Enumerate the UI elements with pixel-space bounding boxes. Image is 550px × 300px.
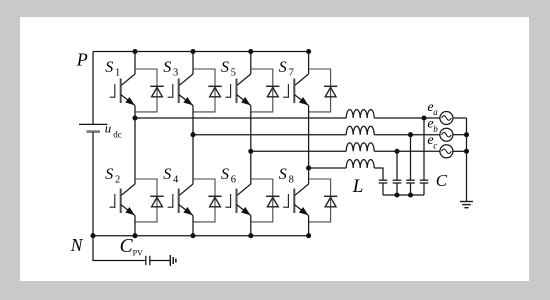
svg-text:u: u bbox=[105, 121, 112, 136]
wire: leg 2 midpoint vertical bbox=[192, 106, 194, 185]
antiparallel diode of S7 bbox=[309, 69, 338, 112]
svg-text:8: 8 bbox=[289, 175, 294, 186]
transistor S8 (IGBT) bbox=[283, 184, 308, 216]
transistor S5 (IGBT) bbox=[225, 74, 250, 106]
wire: phase line c from leg 3 to inductor bbox=[251, 150, 346, 152]
svg-text:6: 6 bbox=[231, 175, 236, 186]
wire: phase line b from leg 2 to inductor bbox=[193, 134, 346, 136]
ground (chassis, horizontal) bbox=[170, 255, 176, 266]
svg-text:a: a bbox=[433, 107, 438, 117]
inductor L (phase c) bbox=[346, 143, 374, 151]
wire: grid neutral bus (right vertical) bbox=[466, 118, 468, 202]
node: grid bus junction b bbox=[464, 132, 469, 137]
transistor S6 (IGBT) bbox=[225, 184, 250, 216]
transistor S4 (IGBT) bbox=[168, 184, 193, 216]
svg-text:S: S bbox=[279, 59, 287, 76]
transistor S3 (IGBT) bbox=[168, 74, 193, 106]
capacitor Cn (filter C) bbox=[379, 180, 388, 195]
wire: source e_b to grid bus bbox=[453, 134, 467, 136]
node: midpoint of leg 1 bbox=[132, 115, 137, 120]
svg-text:3: 3 bbox=[173, 68, 178, 79]
antiparallel diode of S8 bbox=[309, 179, 338, 222]
wire: leg 3 midpoint vertical bbox=[250, 106, 252, 185]
node: grid bus junction c bbox=[464, 149, 469, 154]
node: top rail junction leg 2 bbox=[190, 49, 195, 54]
svg-text:dc: dc bbox=[113, 130, 122, 140]
wire: phase line c from inductor to source e_c bbox=[374, 150, 440, 152]
node: top rail junction leg 1 bbox=[132, 49, 137, 54]
svg-text:S: S bbox=[163, 59, 171, 76]
wire: leg 2 emitter drop to N rail bbox=[192, 216, 194, 236]
svg-text:7: 7 bbox=[289, 68, 294, 79]
wire: phase line b from inductor to source e_b bbox=[374, 134, 440, 136]
wire: source e_c to grid bus bbox=[453, 150, 467, 152]
antiparallel diode of S5 bbox=[251, 69, 280, 112]
svg-text:S: S bbox=[221, 166, 229, 183]
node: bottom rail junction leg 3 bbox=[248, 233, 253, 238]
wire: leg 4 emitter drop to N rail bbox=[308, 216, 310, 236]
capacitor Cc (filter C) bbox=[393, 151, 402, 195]
inductor L (phase b) bbox=[346, 126, 374, 134]
wire: leg 4 midpoint vertical bbox=[308, 106, 310, 185]
svg-text:1: 1 bbox=[115, 68, 120, 79]
wire: neutral line elbow to capacitor bank bbox=[374, 168, 383, 180]
capacitor Cb (filter C) bbox=[406, 135, 415, 195]
node: midpoint of leg 3 bbox=[248, 149, 253, 154]
svg-text:2: 2 bbox=[115, 175, 120, 186]
wire: positive rail P (top bus) bbox=[93, 51, 311, 53]
node: bottom rail junction leg 4 bbox=[306, 233, 311, 238]
node: capacitor tap on phase line bbox=[394, 149, 399, 154]
node: bottom rail junction leg 1 bbox=[132, 233, 137, 238]
AC source e_b bbox=[440, 128, 453, 141]
antiparallel diode of S1 bbox=[135, 69, 164, 112]
svg-text:PV: PV bbox=[133, 249, 143, 258]
capacitor Ca (filter C) bbox=[420, 118, 429, 195]
wire: leg 3 collector drop from P rail bbox=[250, 52, 252, 75]
wire: leg 1 emitter drop to N rail bbox=[134, 216, 136, 236]
svg-text:C: C bbox=[436, 171, 448, 190]
svg-text:b: b bbox=[433, 124, 438, 134]
wire: C_PV to chassis ground bbox=[150, 260, 171, 262]
svg-text:5: 5 bbox=[231, 68, 236, 79]
svg-text:S: S bbox=[105, 59, 113, 76]
battery source u_dc bbox=[79, 124, 108, 131]
antiparallel diode of S4 bbox=[193, 179, 222, 222]
ground (earth) symbol bbox=[460, 202, 473, 208]
AC source e_c bbox=[440, 145, 453, 158]
node: capacitor tap on phase line bbox=[408, 132, 413, 137]
node: cap bus junction 2 bbox=[408, 192, 413, 197]
wire: source e_a to grid bus bbox=[453, 117, 467, 119]
wire: negative rail N (bottom bus) bbox=[93, 235, 311, 237]
wire: left DC rail upper segment bbox=[92, 52, 94, 125]
wire: branch to parasitic capacitor C_PV bbox=[93, 236, 146, 261]
inductor L (phase n) bbox=[346, 160, 374, 168]
wire: leg 1 midpoint vertical bbox=[134, 106, 136, 185]
transistor S2 (IGBT) bbox=[110, 184, 135, 216]
svg-text:N: N bbox=[70, 235, 84, 255]
node: capacitor tap on phase line bbox=[421, 115, 426, 120]
wire: left DC rail lower segment bbox=[92, 132, 94, 236]
svg-text:L: L bbox=[352, 176, 364, 197]
wire: leg 4 collector drop from P rail bbox=[308, 52, 310, 75]
node: N terminal junction bbox=[90, 233, 95, 238]
node: midpoint of leg 4 bbox=[306, 165, 311, 170]
svg-text:P: P bbox=[76, 50, 88, 70]
antiparallel diode of S2 bbox=[135, 179, 164, 222]
wire: leg 2 collector drop from P rail bbox=[192, 52, 194, 75]
svg-text:c: c bbox=[433, 140, 437, 150]
antiparallel diode of S3 bbox=[193, 69, 222, 112]
node: cap bus junction 1 bbox=[394, 192, 399, 197]
node: midpoint of leg 2 bbox=[190, 132, 195, 137]
inductor L (phase a) bbox=[346, 110, 374, 118]
svg-text:4: 4 bbox=[173, 175, 179, 186]
svg-text:S: S bbox=[163, 166, 171, 183]
wire: leg 1 collector drop from P rail bbox=[134, 52, 136, 75]
node: bottom rail junction leg 2 bbox=[190, 233, 195, 238]
transistor S7 (IGBT) bbox=[283, 74, 308, 106]
wire: leg 3 emitter drop to N rail bbox=[250, 216, 252, 236]
capacitor C_PV bbox=[146, 256, 150, 265]
node: top rail junction leg 3 bbox=[248, 49, 253, 54]
antiparallel diode of S6 bbox=[251, 179, 280, 222]
svg-text:C: C bbox=[120, 236, 134, 257]
svg-text:S: S bbox=[279, 166, 287, 183]
node: top rail junction leg 4 bbox=[306, 49, 311, 54]
wire: phase line a from inductor to source e_a bbox=[374, 117, 440, 119]
wire: phase line n from leg 4 to inductor bbox=[309, 167, 347, 169]
AC source e_a bbox=[440, 112, 453, 125]
wire: capacitor common bus bbox=[383, 194, 424, 196]
transistor S1 (IGBT) bbox=[110, 74, 135, 106]
svg-text:S: S bbox=[105, 166, 113, 183]
svg-text:S: S bbox=[221, 59, 229, 76]
wire: phase line a from leg 1 to inductor bbox=[135, 117, 346, 119]
